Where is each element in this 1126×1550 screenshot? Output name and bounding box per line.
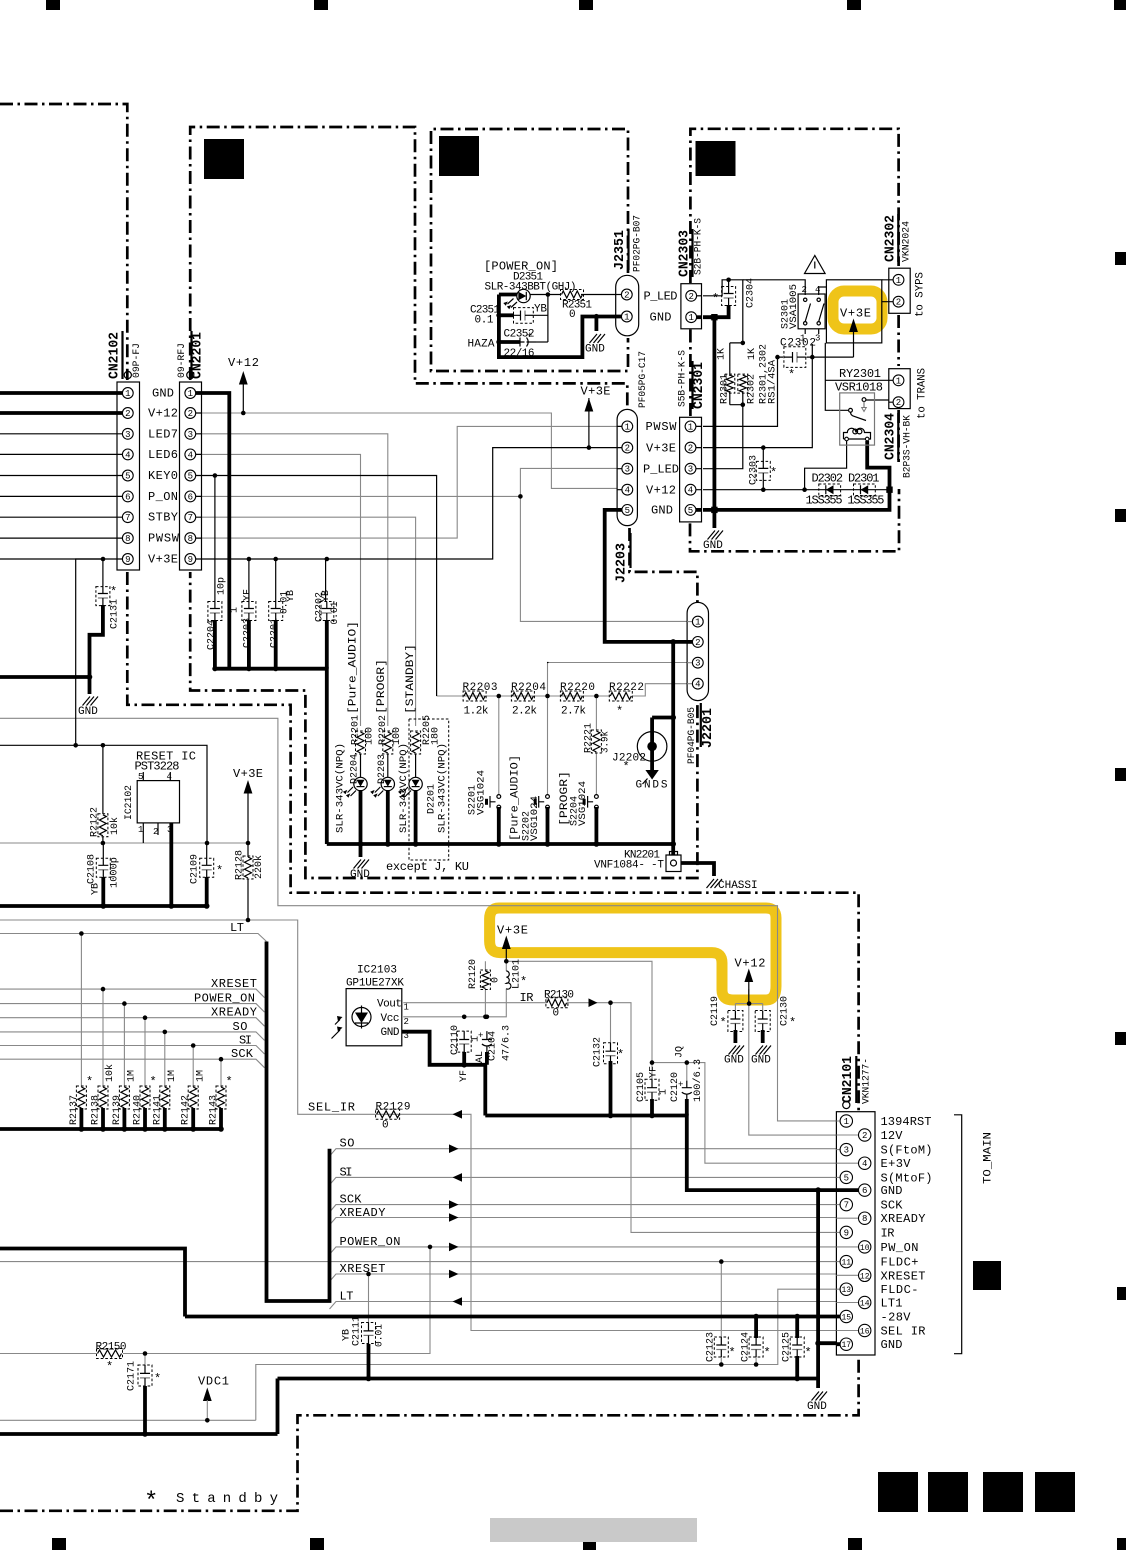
wire left GND row	[0, 677, 90, 694]
svg-text:15: 15	[841, 1314, 851, 1323]
board frame D: right edge segments	[897, 315, 900, 366]
black square near CN2101	[973, 1261, 1001, 1290]
svg-text:Vout: Vout	[377, 999, 402, 1011]
svg-text:4: 4	[125, 450, 130, 460]
svg-text:SEL IR: SEL IR	[881, 1325, 926, 1339]
capacitor C2302	[784, 347, 806, 368]
relay RY2301	[840, 393, 875, 445]
capacitor C2111	[362, 1323, 376, 1345]
terminal KN2201	[666, 852, 681, 872]
svg-text:GND: GND	[881, 1338, 903, 1352]
svg-text:1: 1	[624, 313, 629, 323]
bus arrow POWER_ON right	[449, 1243, 459, 1252]
LED D2351	[503, 289, 530, 309]
power arrow V+3E CN2302	[849, 319, 858, 333]
wire V+12 CN2301 pin4 row with diodes	[703, 489, 890, 491]
svg-text:2: 2	[153, 827, 158, 837]
svg-text:C2123: C2123	[706, 1332, 717, 1362]
svg-text:S5B-PH-K-S: S5B-PH-K-S	[678, 350, 689, 407]
svg-text:GNDS: GNDS	[636, 780, 668, 792]
svg-text:GND: GND	[881, 1184, 903, 1198]
wire SEL_IR net	[0, 920, 841, 1331]
svg-text:7: 7	[125, 513, 130, 523]
svg-text:VSR1018: VSR1018	[835, 381, 883, 395]
svg-text:C2109: C2109	[190, 854, 201, 884]
svg-text:V+3E: V+3E	[581, 385, 611, 399]
svg-text:PWSW: PWSW	[646, 420, 678, 434]
power arrow VDC1	[203, 1388, 212, 1421]
svg-text:LED6: LED6	[148, 448, 178, 462]
svg-text:1: 1	[188, 389, 193, 399]
switch S2204	[584, 795, 598, 809]
svg-text:V+12: V+12	[148, 407, 178, 421]
svg-text:8: 8	[125, 534, 130, 544]
svg-text:[Pure_AUDIO]: [Pure_AUDIO]	[510, 755, 522, 841]
svg-text:0.01: 0.01	[375, 1324, 386, 1347]
wire LT long row	[330, 1302, 837, 1310]
svg-text:6: 6	[188, 492, 193, 502]
svg-text:C2111: C2111	[352, 1316, 363, 1346]
svg-text:YF: YF	[243, 589, 254, 601]
wire C2123 feed from FLDC+	[720, 1262, 722, 1337]
svg-text:1: 1	[471, 1036, 482, 1042]
wire R2120 bottom to Vcc row	[484, 989, 486, 1017]
wire SO row left	[0, 1032, 265, 1041]
power arrow V+12 CN2201	[239, 371, 248, 385]
svg-text:SCK: SCK	[881, 1199, 904, 1213]
wire XRESET vertical to C2111	[429, 1246, 431, 1248]
svg-text:LED7: LED7	[148, 427, 178, 441]
svg-text:YB: YB	[342, 1329, 353, 1341]
wire PWSW CN2301 pin1 up	[703, 357, 778, 426]
svg-text:180: 180	[431, 727, 442, 745]
svg-text:10p: 10p	[217, 577, 228, 595]
wire V+3E CN2301 pin2	[703, 357, 812, 448]
svg-text:R2122: R2122	[90, 807, 101, 837]
svg-text:R2141: R2141	[153, 1095, 164, 1125]
wire Vout IR net	[403, 1002, 547, 1004]
svg-text:R2137: R2137	[69, 1095, 80, 1125]
svg-text:V+3E: V+3E	[233, 767, 263, 781]
svg-text:VNF1084- -T: VNF1084- -T	[594, 860, 664, 872]
svg-text:CN2304: CN2304	[883, 413, 899, 460]
svg-text:[Pure_AUDIO]: [Pure_AUDIO]	[348, 621, 360, 714]
LED D2203	[370, 754, 394, 798]
svg-text:*: *	[764, 1346, 771, 1360]
capacitor C2123	[714, 1337, 728, 1357]
wire SCK row left	[0, 1059, 265, 1068]
svg-text:PF02PG-B07: PF02PG-B07	[633, 215, 644, 272]
svg-text:R2302: R2302	[747, 374, 758, 404]
wire C2132 stub	[609, 1061, 613, 1116]
svg-text:C2105: C2105	[636, 1072, 647, 1102]
wire KEY0 net	[202, 476, 437, 697]
svg-text:*: *	[616, 705, 623, 719]
wire 1394RST net	[0, 718, 841, 1121]
svg-text:3: 3	[167, 825, 172, 835]
wire relay drive from box	[825, 343, 848, 410]
connector CN2304	[889, 369, 910, 409]
wire V+12 arrow CN2201	[242, 384, 244, 413]
connector CN2302	[889, 268, 910, 313]
resistor R2129	[376, 1109, 400, 1119]
wire GND stem J2351	[595, 317, 599, 332]
capacitor C2124	[749, 1337, 763, 1357]
gnd symbol CN2102 area	[78, 697, 98, 719]
svg-text:*: *	[712, 292, 719, 306]
wire C2105 C2120 tops	[651, 1063, 653, 1080]
svg-text:2: 2	[688, 292, 693, 302]
wire V+3E net IC2103 region to E+3V pin	[506, 961, 841, 1163]
jack J2202	[637, 732, 667, 784]
board frame D: top-right relay board	[690, 129, 898, 417]
svg-text:100: 100	[392, 727, 403, 745]
wire IC2102 pin3 thick down	[169, 823, 173, 906]
resistor R2221	[591, 730, 601, 753]
wire Vcc row	[403, 989, 506, 1017]
svg-text:R2129: R2129	[376, 1101, 411, 1113]
svg-text:16: 16	[860, 1328, 870, 1337]
svg-text:2: 2	[625, 444, 630, 454]
svg-text:P_LED: P_LED	[644, 290, 678, 304]
svg-text:1: 1	[230, 607, 241, 613]
svg-text:LT: LT	[340, 1290, 354, 1304]
wire left GND bus RESET area	[0, 904, 207, 908]
wire CN2303 pin1 GND bus down	[703, 317, 714, 528]
svg-text:PF04PG-B05: PF04PG-B05	[687, 707, 698, 764]
wire R2301 parallel rails	[730, 343, 743, 405]
svg-text:CN2301: CN2301	[691, 362, 707, 409]
capacitor C2108	[96, 858, 110, 877]
svg-text:4: 4	[695, 680, 700, 690]
capacitor C2109	[200, 858, 214, 877]
capacitor C2131	[96, 587, 110, 606]
svg-text:Standby: Standby	[176, 1491, 285, 1507]
svg-text:SLR-343VC(NPQ): SLR-343VC(NPQ)	[335, 743, 347, 833]
svg-text:1: 1	[688, 422, 693, 432]
svg-text:10k: 10k	[109, 817, 121, 835]
wire C2304 bottom	[710, 305, 729, 317]
svg-text:2: 2	[802, 285, 807, 295]
svg-text:R2128: R2128	[235, 850, 246, 880]
switch S2202	[535, 795, 549, 809]
wire C2171 feed	[144, 1354, 146, 1367]
switch block S2301	[798, 294, 825, 329]
svg-text:1: 1	[404, 1003, 409, 1013]
wire RESET node row	[0, 842, 248, 844]
svg-text:V+3E: V+3E	[148, 553, 178, 567]
svg-text:SCK: SCK	[231, 1047, 254, 1061]
svg-text:IR: IR	[881, 1226, 895, 1240]
svg-text:C2201: C2201	[270, 618, 281, 648]
svg-text:V+3E: V+3E	[646, 441, 676, 455]
svg-text:*: *	[720, 1016, 727, 1030]
svg-text:*: *	[86, 1075, 93, 1089]
capacitor C2204	[208, 602, 222, 621]
gnd symbol C2119	[724, 1046, 744, 1067]
svg-text:3: 3	[625, 465, 630, 475]
svg-text:B2P3S-VH-BK: B2P3S-VH-BK	[903, 415, 914, 478]
connector CN2201	[180, 371, 202, 570]
resistor R2137	[76, 1086, 86, 1109]
svg-text:*: *	[805, 1346, 812, 1360]
svg-text:to TRANS: to TRANS	[917, 368, 929, 419]
svg-text:C2302: C2302	[780, 338, 816, 350]
svg-text:1: 1	[695, 618, 700, 628]
resistor R2301	[725, 374, 735, 393]
board frame D: bottom edge	[690, 489, 899, 551]
svg-text:YF: YF	[459, 1070, 470, 1082]
svg-text:4: 4	[688, 486, 693, 496]
IC2102 reset IC box	[137, 781, 179, 823]
bus arrow SO right	[449, 1144, 459, 1153]
capacitor C2125	[790, 1337, 804, 1357]
wire C2124 C2125 tops from -28V row	[756, 1317, 797, 1339]
svg-text:3: 3	[688, 465, 693, 475]
svg-text:XRESET: XRESET	[881, 1269, 926, 1283]
svg-text:17: 17	[841, 1341, 851, 1350]
svg-text:4: 4	[625, 486, 630, 496]
svg-text:V+12: V+12	[646, 483, 676, 497]
wire C2123 C2124 bottoms	[721, 1357, 756, 1365]
wire SO long row	[330, 1149, 837, 1157]
svg-text:1: 1	[125, 389, 130, 399]
svg-text:9: 9	[125, 555, 130, 565]
svg-text:GP1UE27XK: GP1UE27XK	[346, 978, 404, 990]
resistor R2141	[160, 1086, 170, 1109]
wire STBY net to R2205	[202, 517, 416, 726]
svg-text:2.7k: 2.7k	[561, 706, 586, 718]
wire C2110 C2104 stubs	[464, 1052, 487, 1065]
registration marks: top edge	[46, 0, 60, 10]
capacitor C2130	[755, 1011, 770, 1032]
svg-text:R2301: R2301	[720, 374, 731, 404]
board frame N: standby bottom left piece	[0, 1509, 138, 1512]
wire C2109 top	[206, 843, 208, 858]
wire C2132 feed	[610, 1003, 612, 1043]
svg-text:5: 5	[688, 506, 693, 516]
svg-text:1: 1	[844, 1117, 849, 1127]
STANDBY dashed box	[409, 719, 449, 860]
wire cap stubs C2204 C2203 C2201 C2202	[215, 620, 327, 669]
svg-text:12: 12	[860, 1272, 870, 1281]
resistor R2138	[98, 1086, 108, 1109]
svg-text:except J, KU: except J, KU	[386, 860, 469, 874]
wire resistor bank stubs	[81, 1108, 221, 1129]
svg-text:6: 6	[125, 492, 130, 502]
svg-text:9: 9	[844, 1228, 849, 1238]
labels CN2101 pins	[881, 1115, 933, 1352]
svg-text:1: 1	[625, 422, 630, 432]
wire C2108 C2109 bottoms	[103, 877, 206, 906]
switch S2201	[487, 795, 501, 809]
gnd symbol LED bus	[350, 860, 370, 882]
svg-text:C2203: C2203	[243, 618, 254, 648]
svg-text:2: 2	[688, 444, 693, 454]
capacitor C2104 polarized	[478, 1031, 492, 1052]
svg-text:1: 1	[688, 313, 693, 323]
resistor R2130	[546, 998, 568, 1008]
svg-text:1: 1	[659, 1089, 670, 1095]
svg-text:AL: AL	[475, 1051, 486, 1063]
svg-text:R2142: R2142	[181, 1095, 192, 1125]
wire V+3E net pin9 to J2203 pin2	[202, 448, 618, 559]
capacitor C2303	[756, 461, 770, 480]
svg-text:SO: SO	[340, 1137, 355, 1151]
svg-text:R2201: R2201	[351, 715, 362, 745]
svg-text:100/6.3: 100/6.3	[692, 1059, 704, 1102]
svg-text:GND: GND	[585, 344, 605, 356]
svg-text:PW_ON: PW_ON	[881, 1241, 919, 1255]
highlighter mark around V+3E / V+12 nets (center)	[490, 908, 776, 1000]
svg-text:KEY0: KEY0	[148, 469, 178, 483]
wire V+3E arrow stem CN2302 area	[853, 332, 855, 357]
svg-text:0.01: 0.01	[330, 602, 341, 625]
wire C2203 C2201 C2202 feeds	[249, 559, 326, 602]
bus arrow XREADY right	[449, 1213, 459, 1222]
svg-text:5: 5	[625, 506, 630, 516]
svg-text:HAZA: HAZA	[468, 339, 495, 351]
svg-text:1SS355 1SS355: 1SS355 1SS355	[806, 494, 885, 508]
wire FLDC+ row	[0, 1261, 836, 1263]
gnd symbol C2130	[751, 1046, 771, 1067]
svg-text:FLDC+: FLDC+	[881, 1256, 919, 1270]
bus arrow SEL_IR left	[453, 1110, 463, 1119]
wire C2131 feed	[102, 559, 104, 587]
resistor R2140	[140, 1086, 150, 1109]
svg-text:SCK: SCK	[340, 1193, 363, 1207]
svg-text:R2203: R2203	[463, 682, 498, 694]
svg-text:YF: YF	[649, 1066, 660, 1078]
svg-text:*: *	[520, 975, 527, 989]
resistor R2139	[119, 1086, 129, 1109]
svg-text:C2104: C2104	[488, 1031, 499, 1061]
svg-text:POWER_ON: POWER_ON	[340, 1235, 401, 1249]
wire CN2302 pin leads	[882, 280, 889, 302]
connector CN2102	[117, 371, 140, 570]
svg-text:4: 4	[167, 772, 172, 782]
wire V+3E arrow RESET region	[247, 793, 249, 843]
capacitor C2119	[728, 1011, 743, 1032]
connector CN2303	[681, 284, 702, 329]
LED D2204	[343, 754, 367, 798]
svg-text:1: 1	[138, 825, 143, 835]
capacitor C2203	[242, 602, 256, 621]
svg-text:XRESET: XRESET	[211, 977, 257, 991]
svg-text:3: 3	[188, 430, 193, 440]
svg-text:R2130: R2130	[544, 990, 574, 1002]
svg-text:GND: GND	[703, 540, 723, 552]
svg-text:C2108: C2108	[87, 854, 98, 884]
wire C2119 C2130 bottoms	[735, 1030, 762, 1043]
svg-text:3: 3	[404, 1031, 409, 1041]
svg-text:CN2101: CN2101	[840, 1056, 856, 1103]
svg-text:5: 5	[188, 472, 193, 482]
svg-text:22/16: 22/16	[504, 348, 535, 360]
svg-text:2: 2	[404, 1017, 409, 1027]
resistor R2150	[97, 1349, 123, 1359]
wire RY2301 pin2 wire	[866, 399, 889, 401]
svg-text:GND: GND	[751, 1055, 771, 1067]
svg-text:XRESET: XRESET	[340, 1262, 386, 1276]
svg-text:V+12: V+12	[735, 957, 766, 971]
svg-text:VSG1024: VSG1024	[477, 770, 488, 815]
wire C2304 top lead	[728, 280, 730, 287]
svg-text:LT: LT	[230, 921, 244, 935]
wire XRESET long row	[330, 1274, 837, 1282]
svg-text:XREADY: XREADY	[881, 1212, 926, 1226]
capacitor C2132	[604, 1043, 618, 1064]
svg-text:GND: GND	[152, 387, 174, 401]
svg-text:P_LED: P_LED	[643, 462, 679, 476]
wire POWER_ON long row	[330, 1247, 837, 1255]
IC2103 box	[332, 989, 402, 1046]
wire D2351 cathode frame	[499, 295, 621, 358]
svg-text:09P-FJ: 09P-FJ	[132, 343, 143, 378]
wire R2137 feed	[80, 934, 82, 1088]
svg-text:1M: 1M	[167, 1070, 178, 1082]
wire bottom GND bus	[0, 1379, 818, 1435]
svg-text:12V: 12V	[881, 1129, 904, 1143]
power arrow V+3E reset	[244, 780, 253, 794]
svg-text:R2120: R2120	[468, 959, 479, 989]
svg-text:RY2301: RY2301	[839, 367, 881, 381]
wire HAZA C2352 left lead	[499, 340, 520, 344]
svg-text:R2150: R2150	[96, 1342, 127, 1354]
capacitor C2120 polarized	[678, 1080, 692, 1099]
wire C2352 right lead	[536, 341, 548, 343]
svg-text:*: *	[729, 1346, 736, 1360]
bus arrow LT left	[453, 1297, 463, 1306]
svg-text:1M: 1M	[196, 1070, 207, 1082]
capacitor C2171	[138, 1365, 152, 1386]
svg-text:C2120: C2120	[670, 1072, 681, 1102]
power arrow V+3E J2203	[585, 398, 594, 412]
svg-text:CN2102: CN2102	[107, 332, 123, 379]
svg-text:IR: IR	[520, 991, 534, 1005]
svg-text:14: 14	[860, 1300, 870, 1309]
svg-text:5: 5	[844, 1173, 849, 1183]
wire V+3E relay box	[826, 280, 881, 343]
wire J2203 pin5 GND to J2201 pin2	[605, 510, 691, 642]
gnd symbol J2351	[585, 334, 605, 356]
svg-text:V+3E: V+3E	[497, 924, 528, 938]
resistor R2202	[383, 731, 393, 754]
wire resistor bank bus	[0, 1127, 222, 1131]
svg-text:4: 4	[815, 285, 820, 295]
svg-text:SO: SO	[233, 1020, 248, 1034]
wire P_LED net to J2203 pin3 and J2201 pin1	[520, 468, 691, 621]
wire IC GND bus to CN2101 pin6	[485, 1116, 838, 1191]
svg-text:1394RST: 1394RST	[881, 1115, 932, 1129]
svg-text:FLDC-: FLDC-	[881, 1283, 919, 1297]
svg-text:S(FtoM): S(FtoM)	[881, 1144, 933, 1158]
svg-text:XREADY: XREADY	[211, 1006, 257, 1020]
wire CN2102 left rows pins 3-9	[0, 434, 117, 559]
svg-text:R2222: R2222	[609, 682, 644, 694]
wire R2150 row to POWER_ON	[0, 1247, 430, 1354]
board frame N: below CN2102 through CHASSI line to Standby region	[127, 572, 858, 1511]
svg-text:D2201: D2201	[427, 784, 438, 814]
connector CN2301	[680, 417, 702, 522]
svg-text:[PROGR]: [PROGR]	[376, 659, 388, 714]
wire R2128	[247, 843, 249, 920]
connector J2351	[616, 275, 639, 336]
svg-text:5: 5	[125, 472, 130, 482]
svg-text:*: *	[110, 585, 117, 599]
diode D2301	[854, 484, 876, 496]
resistor R2302	[738, 374, 748, 393]
